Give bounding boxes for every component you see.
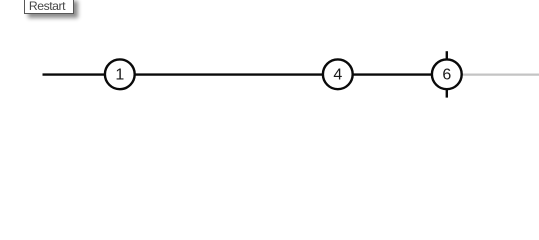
tooltip "Restart" button label [24,0,74,14]
node 1 circle [105,59,135,89]
wire: gray segment after node 6 [447,73,539,75]
node 6 circle [432,59,462,89]
svg-text:6: 6 [442,67,451,84]
node 4 circle [323,59,353,89]
svg-text:4: 4 [333,67,342,84]
wire: black timeline segment [43,73,447,75]
tick marker through node 6 [446,51,448,97]
svg-text:1: 1 [115,67,124,84]
